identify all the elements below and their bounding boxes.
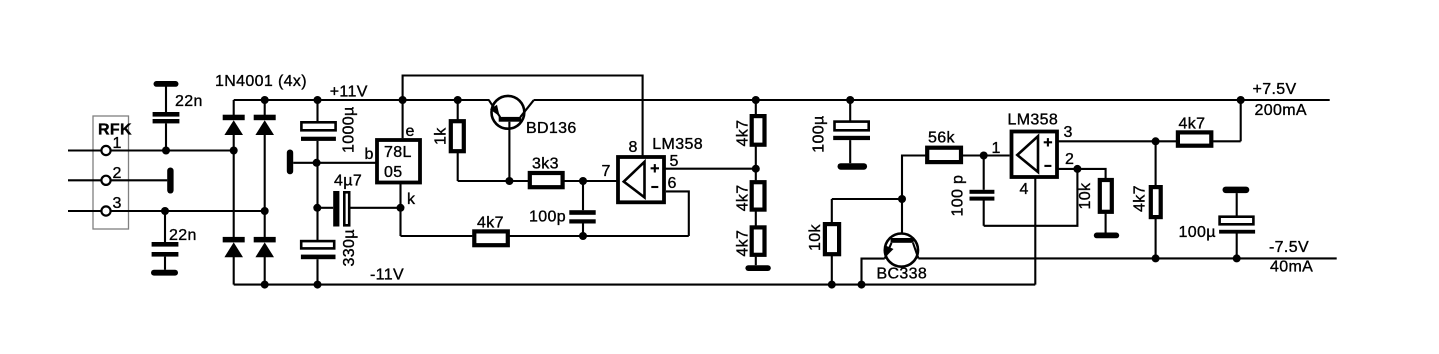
wire bridge right column [264,100,266,285]
capacitor C 22n top : ground bar [154,81,179,87]
connector pin circle 2 [101,176,110,185]
svg-text:e: e [406,123,415,140]
wire 10k row [832,198,902,200]
resistor R 4k7 vertical right body [1151,187,1161,217]
junction 4u7 row [313,204,321,212]
svg-text:+7.5V: +7.5V [1253,81,1297,98]
svg-text:3: 3 [1064,124,1073,141]
resistor stack 4k7 leads [755,100,757,265]
junction top rail / 100u left [846,96,854,104]
wire feedback 100p2 to pin2 [984,169,1078,226]
diode D4 bottom-right 1N4001 [254,237,276,257]
junction bottom rail / 330u [314,281,322,289]
resistor R 3k3 body [530,173,563,187]
wire 330u column upper [316,208,318,241]
junction top rail / 1k [454,96,462,104]
wire BC338 collector to -7.5V rail [918,257,1336,259]
resistor R 4k7 stack top body [752,116,765,145]
svg-text:k: k [407,191,416,208]
wire 56k right lead [963,154,1010,156]
svg-text:4µ7: 4µ7 [334,173,362,190]
transistor Q BC338 internals [885,238,919,259]
capacitor C 100p second leads [983,156,985,226]
svg-text:-11V: -11V [370,267,404,284]
ground bar 4k7 stack [745,265,770,271]
junction k [397,204,405,212]
wire 1000u column down to 4u7 row [316,163,318,208]
svg-text:BC338: BC338 [877,266,928,283]
junction 56k right / 100p2 [980,152,988,160]
svg-text:4k7: 4k7 [477,214,504,231]
connector pin circle 3 [101,206,110,215]
junction pin2 / feedback column [1073,165,1081,173]
svg-text:4k7: 4k7 [1179,116,1206,133]
capacitor C 100u right leads [1236,193,1238,258]
op-amp U1 plus mark [651,164,659,172]
capacitor C 1000u lead lower [316,141,318,163]
capacitor C 22n top lead lower [165,123,167,150]
junction -7.5 rail / 100u right [1233,254,1241,262]
wire 4u7 row left [318,207,334,209]
transistor Q BC338 circle [885,234,918,267]
svg-text:100µ: 100µ [811,115,828,152]
capacitor C 22n bottom : ground bar [151,270,178,276]
capacitor C 22n top lead upper [165,87,167,113]
svg-text:10k: 10k [1077,182,1094,209]
svg-text:100 p: 100 p [950,175,967,217]
wire 3k3 left lead [509,180,528,182]
svg-text:4k7: 4k7 [735,120,752,147]
svg-text:b: b [365,146,374,163]
svg-text:-7.5V: -7.5V [1269,239,1309,256]
svg-text:1: 1 [992,140,1001,157]
svg-text:4k7: 4k7 [735,230,752,257]
wire 4u7 row right to k junction [351,207,401,209]
svg-text:LM358: LM358 [1008,112,1059,129]
capacitor C 100u right plates [1219,217,1255,234]
svg-text:2: 2 [1065,151,1074,168]
junction bottom rail / bridge right column [261,281,269,289]
diode D3 bottom-left 1N4001 [223,237,245,257]
wire 3k3 right lead [564,180,616,182]
capacitor C 100u left plates [833,122,870,141]
junction top rail / 4k7 output [1237,96,1245,104]
junction top rail / e column [399,96,407,104]
capacitor C 1000u lead upper [316,100,318,122]
svg-text:LM358: LM358 [652,136,703,153]
svg-text:8: 8 [629,139,638,156]
svg-text:40mA: 40mA [1270,259,1313,276]
ground bar 100u left [838,163,868,170]
junction row3 / bridge right column [261,207,269,215]
svg-text:3: 3 [113,195,122,212]
svg-text:5: 5 [670,153,679,170]
svg-text:7: 7 [602,163,611,180]
resistor R 10k first leads [831,199,833,285]
op-amp U2 LM358 box [1012,132,1058,178]
connector pin circle 1 [101,146,110,155]
capacitor C 100p second plates [970,190,995,201]
junction bottom rail / emitter [858,281,866,289]
wire bridge left column [233,100,235,285]
svg-text:78L: 78L [384,144,412,161]
resistor R 10k second body [1100,180,1112,212]
capacitor C 100p first leads [582,181,584,236]
ground bar 100u right [1223,187,1250,194]
diode D1 top-left 1N4001 [223,115,245,135]
wire feedback row k to pin6 [401,191,689,236]
ground bar pin2 [167,168,173,194]
capacitor C 100u left leads [849,100,851,163]
svg-text:1k: 1k [433,127,450,145]
capacitor C 330u lead lower [316,259,318,284]
regulator U 78L05 box [377,140,420,183]
svg-text:330µ: 330µ [341,229,358,266]
wire input row 3 to bridge [111,210,265,212]
svg-text:+11V: +11V [330,83,368,100]
junction pin3 row / 4k7 vertical [1152,137,1160,145]
capacitor C 330u plates [301,241,336,259]
junction top rail / bridge right column [261,96,269,104]
connector RFK box [93,116,129,229]
resistor R 10k second bottom lead [1105,214,1107,233]
svg-text:4k7: 4k7 [1132,185,1149,212]
resistor R 4k7 vertical right leads [1155,141,1157,258]
junction 22n top / row1 [162,147,170,155]
wire input row 2 left [68,179,101,181]
capacitor C 4u7 plates [333,191,349,227]
junction 3k3 right / 100p [579,177,587,185]
wire opamp2 pin4 column from -11V rail [1034,177,1036,285]
resistor R 4k7 stack bottom body [752,227,765,254]
transistor Q BD136 internals [489,100,534,121]
op-amp U2 plus mark [1044,138,1052,146]
wire opamp1 input row [583,180,618,182]
junction bottom rail / 10k [828,281,836,289]
junction 56k column / 10k row [898,195,906,203]
junction top rail / 4k7 stack [752,96,760,104]
wire -11V bottom rail [234,284,1036,286]
wire BC338 emitter [862,259,885,285]
wire b row [293,162,375,164]
wire input row 2 to ground [111,179,168,181]
resistor R 1k body [451,121,464,151]
svg-text:22n: 22n [169,227,197,244]
ground bar 10k second [1094,233,1119,239]
svg-text:200mA: 200mA [1255,102,1307,119]
wire opamp1 output pin5 row [664,168,756,170]
wire +11V top rail right of BD136 [534,99,1330,101]
diode D2 top-right 1N4001 [254,115,276,135]
resistor R 4k7 feedback body [474,231,508,245]
wire jog over from e column to opamp1 pin8 [403,76,643,156]
svg-text:4: 4 [1020,181,1029,198]
svg-text:4k7: 4k7 [735,185,752,212]
capacitor C 22n bottom plates [152,242,179,257]
wire 56k row left column [902,156,925,239]
wire input row 1 left [68,149,101,151]
wire k column [399,183,401,237]
ground bar b-row [287,150,293,175]
svg-text:100µ: 100µ [1179,224,1216,241]
capacitor C 22n top plates [153,112,180,123]
svg-text:56k: 56k [928,130,955,147]
svg-text:05: 05 [384,164,403,181]
wire e column [402,100,404,138]
junction 22n bottom / row3 [161,207,169,215]
op-amp U1 triangle [624,162,645,198]
op-amp U1 LM358 box [618,157,664,202]
svg-text:1000µ: 1000µ [341,106,358,153]
op-amp U2 minus mark [1044,165,1051,167]
op-amp U2 triangle [1017,136,1038,172]
op-amp U1 minus mark [651,186,658,188]
svg-text:3k3: 3k3 [532,156,559,173]
wire BD136 base column [508,122,510,181]
resistor R 4k7 stack mid body [752,182,765,209]
wire opamp2 pin2 row [1057,169,1106,178]
capacitor C 22n bottom lead lower [164,257,166,270]
junction top rail / 1000u [314,96,322,104]
svg-text:22n: 22n [175,93,203,110]
svg-text:6: 6 [668,175,677,192]
svg-text:1N4001 (4x): 1N4001 (4x) [215,73,307,90]
resistor R 4k7 output body [1178,132,1211,145]
capacitor C 22n bottom lead upper [164,211,166,242]
junction feedback row / 100p [579,232,587,240]
junction 3k3 left [505,177,513,185]
wire input row 1 to bridge [111,149,234,151]
capacitor C 100p first plates [569,210,595,223]
transistor Q BD136 circle [492,96,525,129]
junction row1 / bridge left column [230,147,238,155]
resistor R 1k leads [458,100,510,181]
svg-text:BD136: BD136 [526,120,577,137]
svg-text:100p: 100p [529,209,566,226]
resistor R 10k first body [825,224,839,254]
junction -7.5 rail / 4k7 vertical [1152,254,1160,262]
capacitor C 1000u plates [301,122,336,141]
svg-text:10k: 10k [807,224,824,251]
resistor R 56k body [927,148,961,162]
wire input row 3 left [68,210,101,212]
junction b row / 1000u column [313,159,321,167]
junction pin5 row / 4k7 stack [752,165,760,173]
wire +11V top rail left of BD136 [234,99,490,101]
wire opamp2 pin3 output row [1057,100,1241,141]
